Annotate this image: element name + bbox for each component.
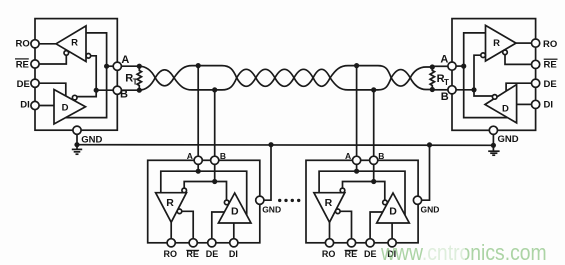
pin RO U1	[31, 40, 39, 48]
enable bubble R4	[336, 209, 341, 214]
svg-text:A: A	[440, 54, 448, 66]
wire twist lens 7	[391, 70, 410, 87]
svg-text:T: T	[133, 77, 138, 86]
wire node A to R4 input	[319, 171, 357, 193]
junction dot B U4	[371, 179, 376, 184]
pin B U4	[370, 156, 378, 164]
svg-text:DE: DE	[17, 79, 30, 90]
wire D2 A-output tap to node A	[464, 66, 508, 118]
svg-text:B: B	[120, 88, 128, 100]
pin DI U4	[388, 239, 396, 247]
input bubble R4 B-input	[340, 188, 345, 193]
wire D1 A-output tap to node A	[66, 66, 107, 117]
pin RO U3	[167, 239, 175, 247]
wire DE pin U3 to D3 enable	[212, 212, 224, 239]
svg-text:A: A	[187, 151, 193, 161]
wire node B to pin B U2	[456, 89, 474, 91]
svg-text:D: D	[502, 104, 509, 115]
wire R4 output to RO pin U4	[329, 222, 331, 238]
svg-text:R: R	[325, 197, 333, 209]
wire R2 output to RO	[516, 42, 532, 44]
junction dot tap B stub 1	[212, 87, 217, 92]
pin DE U1	[31, 79, 39, 87]
svg-text:DE: DE	[544, 79, 557, 90]
ellipsis dots	[278, 199, 281, 202]
wire node B to R3 bubble input	[184, 182, 215, 189]
svg-text:B: B	[378, 151, 384, 161]
wire D2 B-output bubble to node B	[474, 90, 493, 96]
wire R3 enable to RE pin U3	[182, 211, 193, 238]
wire pin A U4 to junction	[356, 164, 358, 171]
pin DI U3	[230, 239, 238, 247]
svg-text:D: D	[231, 206, 239, 218]
wire DI to D1 input	[35, 105, 54, 107]
transceiver U1 box (left)	[35, 19, 117, 131]
svg-text:D: D	[62, 102, 69, 113]
svg-text:DI: DI	[229, 249, 238, 259]
pin DE U4	[366, 239, 374, 247]
svg-text:DE: DE	[206, 249, 219, 259]
wire D1 B-output bubble to node B	[77, 90, 96, 96]
junction dot B U3	[212, 179, 217, 184]
svg-text:RO: RO	[322, 249, 336, 259]
svg-text:GND: GND	[262, 205, 281, 215]
wire bus open loop 2 bottom	[330, 78, 391, 90]
pin GND U1	[73, 126, 81, 134]
svg-text:RE: RE	[544, 60, 557, 71]
wire bus open loop 2 top	[330, 66, 391, 78]
pin A U4	[353, 156, 361, 164]
enable bubble R1	[64, 51, 69, 56]
wire node A to pin A	[107, 65, 114, 67]
wire RT2 to pin A U2	[432, 65, 448, 67]
wire RO to R1 output	[35, 43, 56, 45]
input bubble R1 B-input	[86, 54, 91, 59]
wire U2 GND pin down	[492, 134, 494, 145]
output bubble D1 B-output	[72, 95, 77, 100]
svg-text:B: B	[220, 151, 226, 161]
wire R1 top input to node A	[86, 33, 107, 66]
wire bus open loop 1 top	[174, 66, 237, 78]
op-amp D4 driver triangle U4	[377, 193, 410, 223]
svg-text:RO: RO	[543, 39, 557, 50]
enable bubble R3	[177, 209, 182, 214]
svg-text:RE: RE	[16, 59, 29, 70]
output bubble D2 B-output	[492, 95, 497, 100]
input bubble R3 B-input	[182, 188, 187, 193]
wire twist lens 2	[237, 69, 256, 86]
pin RE U2	[532, 60, 540, 68]
wire twisted pair left fan top	[139, 66, 155, 78]
transceiver U4 box (middle right)	[306, 160, 418, 243]
pin DE U2	[532, 79, 540, 87]
pin RE U3	[189, 239, 197, 247]
wire DE enable to D1	[35, 83, 66, 96]
junction dot tap A stub 1	[196, 63, 201, 68]
wire node B to pin B	[96, 89, 113, 91]
wire U1 GND pin down	[76, 134, 78, 144]
pin B U3	[211, 156, 219, 164]
pin RO U2	[532, 39, 540, 47]
wire R2 B-input to node B	[474, 55, 481, 90]
wire twist lens 1	[155, 70, 174, 86]
junction dot RT1 top	[137, 64, 142, 69]
wire pin A U3 to junction	[197, 164, 199, 171]
svg-text:GND: GND	[498, 134, 519, 145]
op-amp R3 receiver triangle U3	[156, 193, 187, 223]
pin DI U2	[532, 100, 540, 108]
svg-text:R: R	[166, 197, 174, 209]
op-amp R1 receiver triangle U1	[56, 26, 86, 62]
wire DI to D2 input	[517, 103, 532, 105]
wire twisted pair right fan top	[410, 67, 432, 78]
node A junction dot U1	[104, 64, 109, 69]
wire bus tap A stub 2 vertical	[356, 66, 358, 157]
wire twist lens 3	[256, 69, 275, 86]
wire node B to D4 bubble output	[374, 182, 385, 201]
wire RE enable to R2	[505, 55, 532, 65]
op-amp D1 driver triangle U1	[54, 90, 86, 125]
pin A U1	[113, 62, 121, 70]
svg-text:GND: GND	[81, 135, 102, 146]
pin GND U2	[489, 126, 497, 134]
wire twist lens 4	[275, 69, 294, 86]
watermark www.cntronics.com	[381, 242, 547, 264]
pin B U2	[448, 86, 456, 94]
wire pin B U3 to junction	[214, 164, 216, 181]
wire R1 B-input to node B	[91, 56, 97, 90]
junction dot RT1 bottom	[137, 88, 142, 93]
svg-text:DE: DE	[364, 249, 377, 259]
pin A U3	[194, 156, 202, 164]
op-amp R2 receiver triangle U2	[486, 25, 517, 61]
transceiver U3 box (middle left)	[148, 160, 260, 243]
wire bus tap B stub 2 vertical	[373, 90, 375, 156]
wire node A to R3 input	[161, 171, 198, 193]
enable bubble R2	[503, 50, 508, 55]
pin GND U4	[413, 196, 421, 204]
wire twisted pair left fan bottom	[139, 78, 155, 90]
wire twist lens 5	[294, 69, 313, 86]
pin B U1	[113, 86, 121, 94]
node B junction dot U1	[94, 88, 99, 93]
svg-text:T: T	[444, 78, 449, 87]
wire DE enable to D2	[506, 83, 531, 91]
junction dot RT2 top	[430, 64, 435, 69]
wire bus tap A stub 1 vertical	[197, 66, 199, 157]
wire pin B U4 to junction	[373, 164, 375, 181]
wire twist lens 6	[313, 69, 330, 86]
wire RE enable to R1	[35, 55, 66, 64]
output bubble D4 B-output	[383, 200, 388, 205]
wire GND rail	[77, 144, 493, 147]
svg-text:A: A	[121, 54, 129, 66]
input bubble R2 B-input	[481, 53, 486, 58]
node A junction dot U2	[461, 64, 466, 69]
wire twisted pair right fan bottom	[410, 78, 432, 90]
ground symbol right	[492, 145, 494, 151]
wire GND U4 to rail	[422, 145, 430, 200]
pin RE U4	[347, 239, 355, 247]
wire node B to D3 bubble output	[215, 182, 227, 201]
pin RO U4	[325, 239, 333, 247]
svg-text:A: A	[345, 151, 351, 161]
junction dot A U3	[196, 169, 201, 174]
wire R4 enable to RE pin U4	[340, 211, 351, 238]
svg-text:R: R	[493, 38, 500, 49]
wire bus tap B stub 1 vertical	[214, 90, 216, 156]
svg-text:B: B	[441, 91, 449, 103]
svg-text:GND: GND	[421, 205, 440, 215]
junction dot GND rail 1	[268, 142, 273, 147]
wire DI pin U4 to D4 input	[391, 223, 393, 239]
node B junction dot U2	[471, 87, 476, 92]
op-amp R4 receiver triangle U4	[314, 193, 345, 223]
svg-text:R: R	[71, 38, 78, 49]
ground symbol left	[76, 145, 78, 150]
wire GND U3 to rail	[264, 145, 271, 201]
pin RE U1	[31, 60, 39, 68]
junction dot tap B stub 2	[371, 87, 376, 92]
svg-text:DI: DI	[544, 100, 554, 111]
wire node A to pin A U2	[456, 65, 464, 67]
resistor RT2	[430, 67, 434, 90]
wire R2 top input to node A	[464, 33, 486, 66]
wire R3 output to RO pin U3	[170, 222, 172, 238]
wire pin A to termination	[121, 65, 139, 67]
svg-text:RO: RO	[164, 249, 178, 259]
junction dot U2 GND	[491, 143, 496, 148]
op-amp D3 driver triangle U3	[218, 193, 251, 223]
wire DE pin U4 to D4 enable	[370, 212, 382, 239]
junction dot tap A stub 2	[354, 63, 359, 68]
transceiver U2 box (right)	[452, 19, 536, 131]
wire pin B to termination	[121, 89, 139, 91]
wire node A to D4 output tap	[357, 171, 405, 215]
op-amp D2 driver triangle U2	[485, 85, 517, 123]
svg-text:DI: DI	[20, 99, 30, 110]
junction dot RT2 bottom	[430, 87, 435, 92]
output bubble D3 B-output	[224, 200, 229, 205]
svg-text:RO: RO	[16, 38, 30, 49]
junction dot A U4	[354, 169, 359, 174]
pin DE U3	[208, 239, 216, 247]
wire RT2 to pin B U2	[432, 89, 448, 91]
junction dot GND rail 2	[427, 142, 432, 147]
pin GND U3	[256, 196, 264, 204]
pin A U2	[448, 62, 456, 70]
svg-text:D: D	[389, 206, 397, 218]
resistor RT1	[137, 66, 141, 90]
wire node A to D3 output tap	[198, 171, 247, 215]
wire bus open loop 1 bottom	[174, 78, 237, 90]
pin DI U1	[31, 101, 39, 109]
wire DI pin U3 to D3 input	[233, 223, 235, 239]
wire node B to R4 bubble input	[343, 182, 374, 189]
junction dot U1 GND	[74, 142, 79, 147]
